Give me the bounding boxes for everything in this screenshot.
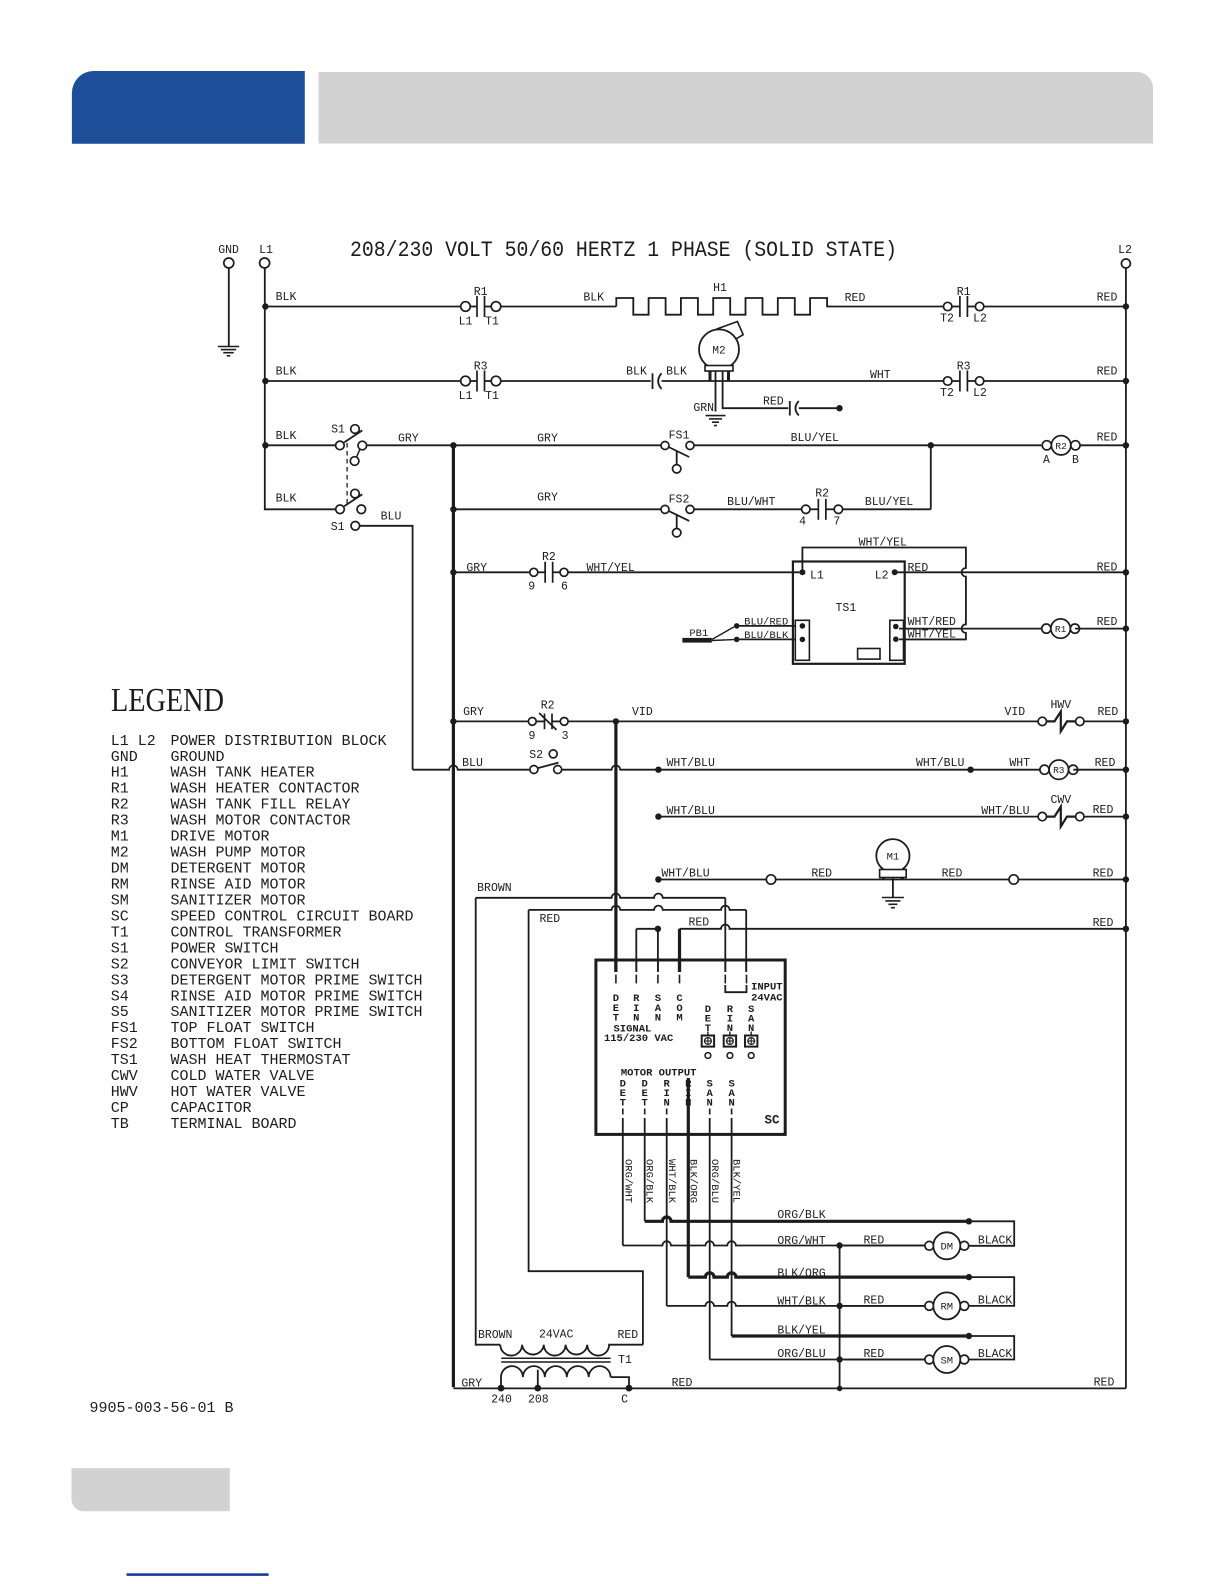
node BLK/YEL loop junction: [966, 1333, 972, 1339]
svg-text:RED: RED: [1097, 366, 1118, 379]
svg-text:BLK/YEL: BLK/YEL: [777, 1324, 825, 1337]
transformer T1 core: [501, 1357, 610, 1359]
svg-text:S1: S1: [111, 940, 129, 957]
svg-text:L2: L2: [973, 313, 987, 326]
wire row8 WHT/BLU: [562, 765, 1045, 769]
svg-text:N: N: [664, 1098, 670, 1110]
wire output ORG/WHT: [622, 1118, 624, 1246]
svg-text:GRY: GRY: [466, 562, 487, 575]
svg-text:R1: R1: [1055, 624, 1067, 635]
node row7 GRY rail junction: [450, 718, 456, 724]
wire output WHT/BLK: [666, 1118, 668, 1306]
svg-text:RED: RED: [1097, 562, 1118, 575]
svg-text:S5: S5: [111, 1004, 129, 1021]
svg-text:SPEED CONTROL CIRCUIT BOARD: SPEED CONTROL CIRCUIT BOARD: [171, 908, 414, 925]
svg-text:BLACK: BLACK: [978, 1348, 1013, 1361]
node row10-L2 junction: [1123, 876, 1129, 882]
svg-text:PB1: PB1: [689, 628, 708, 640]
svg-text:T1: T1: [618, 1354, 632, 1367]
svg-text:BLK: BLK: [666, 366, 687, 379]
node L1 row2 junction: [262, 378, 268, 384]
svg-text:GRY: GRY: [463, 706, 484, 719]
svg-text:SANITIZER MOTOR PRIME SWITCH: SANITIZER MOTOR PRIME SWITCH: [171, 1004, 423, 1021]
wire RED motor common vertical: [839, 1246, 841, 1389]
wire row5 WHT/YEL to TS1: [568, 571, 799, 573]
svg-text:T1: T1: [111, 924, 129, 941]
SC input terminal COM: [676, 975, 683, 1025]
wire row5 GRY: [453, 571, 529, 573]
transformer T1 secondary winding: [501, 1366, 611, 1377]
svg-text:TS1: TS1: [111, 1052, 138, 1069]
wire L2 rail: [1125, 268, 1127, 1388]
node row7 DET rail junction: [613, 718, 619, 724]
svg-text:WHT/RED: WHT/RED: [908, 616, 956, 629]
svg-text:BLK/YEL: BLK/YEL: [730, 1159, 742, 1203]
svg-text:BLACK: BLACK: [978, 1235, 1013, 1248]
wire row1 RED to L2: [984, 306, 1126, 308]
svg-text:BLK/ORG: BLK/ORG: [777, 1267, 825, 1280]
wire row4 BLU/YEL: [843, 508, 931, 510]
svg-text:VID: VID: [632, 706, 653, 719]
node row3 GRY rail junction: [450, 442, 456, 448]
wire row11 RED COM to L2: [678, 929, 681, 972]
SC output terminal DET: [620, 1078, 626, 1114]
node L1 row3 junction: [262, 442, 268, 448]
wire L1 rail: [265, 268, 336, 509]
svg-text:BLK: BLK: [583, 292, 604, 305]
TS1 right terminal strip: [890, 620, 904, 660]
svg-text:POWER DISTRIBUTION BLOCK: POWER DISTRIBUTION BLOCK: [171, 733, 387, 750]
svg-text:BROWN: BROWN: [478, 1329, 513, 1342]
relay contact R2 9-3 NC: [528, 714, 568, 730]
svg-text:N: N: [728, 1098, 734, 1110]
node row2-L2 junction: [1123, 378, 1129, 384]
svg-text:240: 240: [491, 1394, 512, 1407]
svg-text:M: M: [676, 1012, 682, 1024]
svg-text:GRY: GRY: [461, 1377, 482, 1390]
svg-text:WASH PUMP MOTOR: WASH PUMP MOTOR: [171, 845, 306, 862]
wire row7 VID: [568, 720, 1038, 722]
svg-text:CONTROL TRANSFORMER: CONTROL TRANSFORMER: [171, 924, 342, 941]
wire row10 middle: [776, 879, 1009, 881]
SC output terminal SAN: [728, 1078, 735, 1114]
svg-text:CWV: CWV: [111, 1068, 138, 1085]
svg-text:9: 9: [529, 730, 536, 743]
node ORG/BLU-RED junction: [836, 1356, 842, 1362]
wire M2 capacitor lead RED: [723, 371, 789, 408]
thermostat TS1 box: [793, 562, 905, 664]
svg-text:L2: L2: [875, 570, 889, 583]
wire WHT/YEL loop over TS1: [802, 548, 966, 640]
svg-text:L1: L1: [810, 570, 824, 583]
svg-text:RED: RED: [1093, 868, 1114, 881]
switch S1 lower pole: [336, 489, 366, 530]
wire row8 RED to L2: [1073, 769, 1126, 771]
wire 24VAC feeds into SC: [724, 959, 726, 972]
svg-text:4: 4: [799, 516, 806, 529]
node C terminal: [626, 1385, 633, 1392]
svg-text:RED: RED: [672, 1377, 693, 1390]
motor DM: [925, 1232, 969, 1259]
svg-text:WHT/BLU: WHT/BLU: [981, 805, 1029, 818]
svg-text:7: 7: [833, 516, 840, 529]
node row5 GRY rail junction: [450, 569, 456, 575]
svg-text:CWV: CWV: [1050, 794, 1071, 807]
circuit board SC outline: [596, 960, 785, 1134]
svg-text:9905-003-56-01 B: 9905-003-56-01 B: [90, 1400, 234, 1417]
svg-text:DETERGENT MOTOR: DETERGENT MOTOR: [171, 861, 306, 878]
svg-text:SM: SM: [940, 1355, 953, 1367]
svg-text:BLU/RED: BLU/RED: [744, 617, 788, 629]
svg-text:S1: S1: [331, 521, 345, 534]
svg-text:T1: T1: [485, 390, 499, 403]
svg-text:R1: R1: [474, 286, 488, 299]
node TS1 L2 terminal: [892, 569, 898, 575]
wire DM left lead: [844, 1245, 925, 1247]
wire row3 GRY: [367, 444, 661, 446]
relay coil R2 A-B: [1042, 436, 1080, 455]
svg-text:B: B: [1072, 454, 1079, 467]
wire output ORG/BLK: [644, 1118, 646, 1221]
header blue tab: [72, 71, 305, 144]
footer blue rule: [127, 1573, 269, 1576]
switch S2: [530, 750, 562, 774]
wire row6 WHT/RED: [899, 628, 1046, 630]
wire row10 left: [658, 879, 766, 881]
svg-text:FS1: FS1: [111, 1020, 138, 1037]
svg-text:RED: RED: [539, 913, 560, 926]
svg-text:RED: RED: [1093, 804, 1114, 817]
wire RM left lead: [844, 1305, 925, 1307]
svg-text:DM: DM: [940, 1242, 953, 1254]
svg-text:BOTTOM FLOAT SWITCH: BOTTOM FLOAT SWITCH: [171, 1036, 342, 1053]
terminal row10 right: [1009, 875, 1018, 884]
svg-text:RED: RED: [617, 1329, 638, 1342]
svg-text:H1: H1: [713, 282, 727, 295]
svg-text:RED: RED: [1097, 616, 1118, 629]
svg-text:R2: R2: [542, 551, 556, 564]
svg-text:GRY: GRY: [398, 433, 419, 446]
svg-text:24VAC: 24VAC: [539, 1329, 574, 1342]
svg-text:DM: DM: [111, 861, 129, 878]
wire row4 BLU/WHT: [694, 508, 802, 510]
svg-text:T2: T2: [940, 313, 954, 326]
ground symbol M1: [882, 898, 904, 908]
SC INPUT 24VAC terminals: [725, 975, 746, 993]
svg-text:CAPACITOR: CAPACITOR: [171, 1100, 252, 1117]
svg-text:M1: M1: [887, 852, 900, 864]
wire row3 RED to L2: [1080, 444, 1126, 446]
svg-text:ORG/BLK: ORG/BLK: [777, 1209, 825, 1222]
svg-text:HWV: HWV: [1050, 699, 1071, 712]
svg-text:WHT/BLK: WHT/BLK: [665, 1159, 677, 1204]
wire row5 RED from TS1 L2: [895, 571, 1126, 573]
svg-text:RED: RED: [1097, 432, 1118, 445]
wire GRY rail vertical: [452, 445, 455, 1387]
svg-text:BLK: BLK: [276, 493, 297, 506]
svg-text:BROWN: BROWN: [477, 882, 512, 895]
svg-text:BLACK: BLACK: [978, 1295, 1013, 1308]
node 208 terminal: [534, 1385, 541, 1392]
wire 208 tap: [537, 1370, 539, 1385]
node row3-L2 junction: [1123, 442, 1129, 448]
svg-text:RED: RED: [1098, 706, 1119, 719]
svg-text:TOP FLOAT SWITCH: TOP FLOAT SWITCH: [171, 1020, 315, 1037]
svg-text:WASH TANK HEATER: WASH TANK HEATER: [171, 765, 315, 782]
node row6-L2 junction: [1123, 625, 1129, 631]
svg-text:DETERGENT MOTOR PRIME SWITCH: DETERGENT MOTOR PRIME SWITCH: [171, 972, 423, 989]
wire row9 RED to L2: [1084, 816, 1126, 818]
svg-text:208: 208: [528, 1394, 549, 1407]
svg-text:TB: TB: [111, 1116, 129, 1133]
svg-text:RINSE AID MOTOR PRIME SWITCH: RINSE AID MOTOR PRIME SWITCH: [171, 988, 423, 1005]
svg-text:FS2: FS2: [111, 1036, 138, 1053]
svg-text:WHT: WHT: [870, 369, 891, 382]
wire SM loop: [969, 1336, 1014, 1360]
svg-text:RED: RED: [811, 868, 832, 881]
node M2 capacitor end: [836, 405, 842, 411]
svg-text:GROUND: GROUND: [171, 749, 225, 766]
valve HWV: [1038, 712, 1084, 732]
terminal L2: [1118, 244, 1132, 268]
svg-text:BLU: BLU: [381, 510, 402, 523]
svg-text:BLK: BLK: [276, 291, 297, 304]
header gray bar: [319, 72, 1154, 144]
svg-text:VID: VID: [1004, 706, 1025, 719]
svg-text:RED: RED: [688, 917, 709, 930]
svg-text:R3: R3: [111, 813, 129, 830]
wire output BLK/YEL: [731, 1118, 733, 1336]
wire M2 ground lead: [715, 371, 717, 412]
SC input terminal RIN: [633, 975, 640, 1025]
wire SM left lead: [844, 1359, 925, 1361]
svg-text:T: T: [620, 1098, 626, 1110]
node PB1 upper: [734, 623, 740, 629]
wire BLU from S1 to row8: [360, 526, 413, 770]
svg-text:S2: S2: [529, 749, 543, 762]
node row9 SAN rail junction: [655, 813, 661, 819]
SC output terminal RIN: [685, 1078, 692, 1114]
wire row3 BLU/YEL: [694, 444, 1041, 446]
ground symbol M2: [706, 416, 726, 426]
svg-text:WHT/YEL: WHT/YEL: [586, 562, 634, 575]
svg-text:T: T: [642, 1098, 648, 1110]
node L1 row1 junction: [262, 303, 268, 309]
SC trimmer RIN: [724, 1004, 736, 1059]
svg-text:L1: L1: [259, 244, 273, 257]
svg-text:BLU/BLK: BLU/BLK: [744, 630, 789, 642]
SC output terminal SAN: [707, 1078, 714, 1114]
wire BLU/BLK: [740, 638, 796, 640]
svg-text:POWER SWITCH: POWER SWITCH: [171, 940, 279, 957]
wire row2 RED to L2: [984, 380, 1126, 382]
wire capacitor to node: [799, 407, 837, 409]
SC output terminal RIN: [664, 1078, 671, 1114]
wire row7 RED to L2: [1084, 720, 1126, 722]
svg-text:SM: SM: [111, 893, 129, 910]
svg-text:T2: T2: [940, 387, 954, 400]
SC trimmer SAN: [745, 1004, 757, 1059]
svg-text:ORG/BLU: ORG/BLU: [708, 1159, 720, 1203]
motor M1: [876, 839, 909, 879]
wire row1 RED: [826, 306, 943, 308]
wire row8 BLU/WHT-BLU: [413, 765, 530, 769]
svg-text:T1: T1: [485, 316, 499, 329]
wire row2 to motor M2: [662, 380, 944, 382]
wire M1 ground lead: [892, 878, 894, 898]
wire WHT/YEL lower: [899, 638, 966, 640]
capacitor CP M2: [790, 401, 799, 416]
svg-text:RED: RED: [1094, 1377, 1115, 1390]
svg-text:RED: RED: [763, 396, 784, 409]
svg-text:WASH HEAT THERMOSTAT: WASH HEAT THERMOSTAT: [171, 1052, 351, 1069]
relay contact R2 9-6: [530, 562, 568, 583]
node row10 SAN rail junction: [655, 876, 661, 882]
svg-text:S2: S2: [111, 956, 129, 973]
TS1 left terminal strip: [795, 620, 809, 660]
node motor common to bottom wire: [837, 1386, 843, 1392]
svg-text:L1: L1: [459, 390, 473, 403]
svg-text:HOT WATER VALVE: HOT WATER VALVE: [171, 1084, 306, 1101]
svg-text:M2: M2: [111, 845, 129, 862]
wire row9 WHT/BLU: [658, 816, 1038, 818]
node row3-row4 link junction: [928, 442, 934, 448]
svg-text:COLD WATER VALVE: COLD WATER VALVE: [171, 1068, 315, 1085]
svg-text:R1: R1: [111, 781, 129, 798]
svg-text:R3: R3: [474, 361, 488, 374]
node row8-L2 junction: [1123, 767, 1129, 773]
svg-text:RED: RED: [908, 562, 929, 575]
svg-text:WHT/BLK: WHT/BLK: [777, 1295, 825, 1308]
svg-text:24VAC: 24VAC: [751, 992, 783, 1004]
svg-text:R2: R2: [111, 797, 129, 814]
valve CWV: [1038, 807, 1084, 827]
capacitor CP row2: [653, 373, 662, 389]
svg-text:FS2: FS2: [669, 493, 690, 506]
wire output ORG/BLU: [709, 1118, 711, 1360]
svg-text:3: 3: [562, 730, 569, 743]
wire row6 RED to L2: [1075, 628, 1126, 630]
svg-text:BLK: BLK: [626, 366, 647, 379]
svg-text:FS1: FS1: [669, 430, 690, 443]
wire 240 tap: [500, 1377, 502, 1385]
svg-text:BLK: BLK: [276, 366, 297, 379]
float switch FS1: [661, 442, 694, 473]
svg-text:WASH MOTOR CONTACTOR: WASH MOTOR CONTACTOR: [171, 813, 351, 830]
svg-text:WHT: WHT: [1009, 757, 1030, 770]
svg-text:ORG/BLU: ORG/BLU: [777, 1348, 825, 1361]
motor M2: [699, 322, 743, 382]
contactor R1 contact L1-T1: [461, 296, 501, 317]
svg-text:A: A: [1043, 454, 1050, 467]
wire row4 to row3 vertical link: [930, 445, 932, 509]
SC input terminal SAN: [655, 975, 662, 1025]
svg-text:H1: H1: [111, 765, 129, 782]
SC input terminal DET: [613, 975, 619, 1025]
wire C tap: [611, 1377, 629, 1385]
svg-text:BLU/YEL: BLU/YEL: [791, 432, 839, 445]
wire DET feed into SC: [614, 959, 617, 972]
svg-text:GRY: GRY: [537, 433, 558, 446]
node row5-L2 junction: [1123, 569, 1129, 575]
svg-text:L1: L1: [459, 316, 473, 329]
svg-text:RED: RED: [942, 868, 963, 881]
contactor R1 contact T2-L2: [944, 296, 984, 317]
motor SM: [925, 1346, 969, 1373]
svg-text:GND: GND: [218, 244, 239, 257]
svg-text:BLU/WHT: BLU/WHT: [727, 496, 775, 509]
wire row2 BLK to capacitor: [501, 380, 651, 382]
svg-text:WHT/BLU: WHT/BLU: [667, 757, 715, 770]
heater H1: [616, 298, 827, 315]
svg-text:R2: R2: [1055, 441, 1067, 452]
svg-text:WASH TANK FILL RELAY: WASH TANK FILL RELAY: [171, 797, 351, 814]
svg-text:WHT/YEL: WHT/YEL: [908, 629, 956, 642]
svg-text:M1: M1: [111, 829, 129, 846]
contactor R3 contact T2-L2: [944, 371, 984, 392]
svg-text:HWV: HWV: [111, 1084, 138, 1101]
svg-text:R2: R2: [541, 700, 555, 713]
wire SAN feed into SC: [657, 959, 659, 972]
wire RIN feed into SC: [635, 959, 637, 972]
svg-text:9: 9: [528, 581, 535, 594]
SC output terminal DET: [642, 1078, 648, 1114]
svg-text:N: N: [707, 1098, 713, 1110]
wire DM loop: [969, 1221, 1014, 1246]
wire output BLK/ORG: [687, 1078, 690, 1277]
svg-text:ORG/BLK: ORG/BLK: [643, 1159, 655, 1204]
wire BROWN transformer to SC input: [476, 898, 501, 1345]
wire RM loop: [969, 1277, 1014, 1306]
svg-text:TS1: TS1: [836, 602, 857, 615]
svg-text:WASH HEATER CONTACTOR: WASH HEATER CONTACTOR: [171, 781, 360, 798]
svg-text:N: N: [655, 1012, 661, 1024]
node row8 SAN rail junction: [655, 767, 661, 773]
node PB1 lower: [734, 637, 740, 643]
footer gray box: [72, 1468, 230, 1511]
wire RED transformer secondary to SC input: [529, 910, 643, 1345]
svg-text:DRIVE MOTOR: DRIVE MOTOR: [171, 829, 270, 846]
svg-text:115/230 VAC: 115/230 VAC: [604, 1033, 674, 1045]
svg-text:WHT/BLU: WHT/BLU: [667, 805, 715, 818]
svg-text:BLU/YEL: BLU/YEL: [865, 496, 913, 509]
svg-text:208/230 VOLT 50/60 HERTZ 1 PHA: 208/230 VOLT 50/60 HERTZ 1 PHASE (SOLID …: [350, 238, 897, 263]
svg-text:WHT/BLU: WHT/BLU: [916, 757, 964, 770]
SC trimmer DET: [702, 1004, 714, 1059]
svg-text:BLK/ORG: BLK/ORG: [686, 1159, 698, 1203]
switch S1 upper pole: [336, 425, 367, 466]
svg-text:SC: SC: [111, 908, 129, 925]
svg-text:TERMINAL BOARD: TERMINAL BOARD: [171, 1116, 297, 1133]
legend entries: [111, 733, 423, 1133]
svg-text:RED: RED: [845, 292, 866, 305]
svg-text:L1 L2: L1 L2: [111, 733, 156, 750]
svg-text:C: C: [621, 1394, 628, 1407]
svg-text:RED: RED: [1097, 292, 1118, 305]
svg-text:S4: S4: [111, 988, 129, 1005]
node row11-L2 junction: [1123, 926, 1129, 932]
node row1-L2 junction: [1123, 303, 1129, 309]
TS1 bottom rectangle: [858, 649, 880, 660]
node row8 color change: [967, 767, 973, 773]
svg-text:M2: M2: [712, 346, 725, 358]
svg-text:S3: S3: [111, 972, 129, 989]
motor RM: [925, 1292, 969, 1319]
node row9-L2 junction: [1123, 813, 1129, 819]
svg-text:R2: R2: [815, 488, 829, 501]
svg-text:S1: S1: [331, 424, 345, 437]
svg-text:SC: SC: [764, 1114, 780, 1128]
